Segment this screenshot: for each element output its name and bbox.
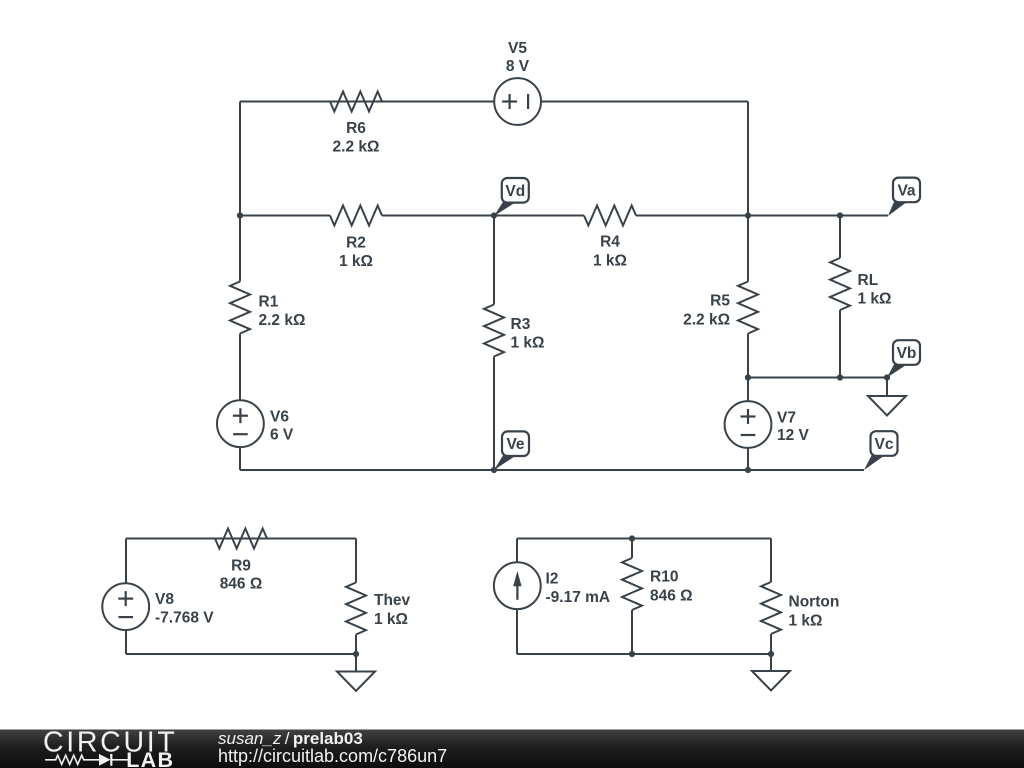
svg-text:12 V: 12 V [777,427,810,444]
svg-text:Norton: Norton [789,594,840,611]
svg-text:-9.17 mA: -9.17 mA [546,589,611,606]
svg-text:Vc: Vc [875,436,894,453]
svg-text:V7: V7 [777,409,796,426]
svg-text:2.2 kΩ: 2.2 kΩ [259,312,306,329]
svg-text:V6: V6 [270,408,289,425]
svg-text:1 kΩ: 1 kΩ [858,290,892,307]
svg-text:I2: I2 [546,571,559,588]
svg-text:1 kΩ: 1 kΩ [511,335,545,352]
svg-text:R4: R4 [600,234,620,251]
svg-text:2.2 kΩ: 2.2 kΩ [683,312,730,329]
svg-text:susan_z / prelab03: susan_z / prelab03 [218,729,363,748]
svg-text:Vb: Vb [897,345,917,362]
svg-text:R10: R10 [650,568,678,585]
svg-text:R2: R2 [346,235,366,252]
svg-text:Ve: Ve [506,436,524,453]
svg-text:846 Ω: 846 Ω [220,575,263,592]
svg-text:RL: RL [858,272,879,289]
svg-text:1 kΩ: 1 kΩ [374,611,408,628]
svg-text:V8: V8 [155,591,174,608]
svg-text:R9: R9 [231,557,251,574]
svg-text:Vd: Vd [505,183,525,200]
svg-text:1 kΩ: 1 kΩ [339,253,373,270]
svg-text:1 kΩ: 1 kΩ [789,613,823,630]
svg-text:R5: R5 [710,293,730,310]
svg-text:Va: Va [897,182,915,199]
svg-text:Thev: Thev [374,592,411,609]
svg-text:1 kΩ: 1 kΩ [593,253,627,270]
svg-text:R6: R6 [346,120,366,137]
svg-text:846 Ω: 846 Ω [650,587,693,604]
svg-text:http://circuitlab.com/c786un7: http://circuitlab.com/c786un7 [218,746,447,766]
svg-text:6 V: 6 V [270,427,294,444]
svg-text:V5: V5 [508,40,527,57]
svg-text:-7.768 V: -7.768 V [155,609,214,626]
svg-text:2.2 kΩ: 2.2 kΩ [333,138,380,155]
svg-text:LAB: LAB [126,748,174,768]
svg-text:8 V: 8 V [506,58,530,75]
svg-text:R1: R1 [259,294,279,311]
svg-text:R3: R3 [511,316,531,333]
